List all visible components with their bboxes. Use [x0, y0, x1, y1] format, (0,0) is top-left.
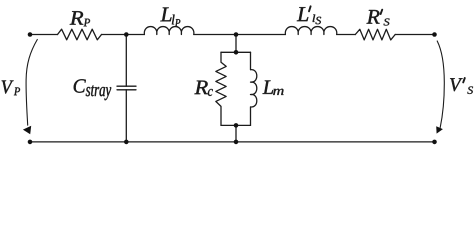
- wire LlP to node B: [194, 34, 286, 36]
- label LlS_S: [316, 17, 322, 24]
- label RS prime tick: [381, 10, 383, 14]
- label Lm_m: [273, 89, 283, 95]
- capacitor C1 Cstray top lead: [125, 35, 127, 87]
- label VS prime tick: [463, 78, 465, 82]
- inductor L3 Lm vertical: [251, 52, 257, 125]
- label RP_R: [70, 11, 84, 24]
- capacitor C1 Cstray plates: [117, 86, 136, 90]
- label RS_S: [384, 19, 390, 26]
- resistor R1 RP zigzag: [58, 29, 102, 40]
- node dot top parallel junction: [234, 32, 239, 37]
- label Lm_L: [263, 81, 274, 94]
- label LlP_l: [172, 15, 175, 25]
- wire stub box to bottom rail: [235, 125, 237, 141]
- resistor R2 RS zigzag: [355, 29, 395, 40]
- wire box bottom: [221, 124, 251, 126]
- node dot box bottom: [234, 123, 239, 128]
- label Rc_c: [208, 89, 213, 96]
- label VS_V: [450, 78, 463, 91]
- wire LlS to RS: [337, 34, 356, 36]
- label LlS prime tick: [309, 6, 311, 11]
- inductor L2 LlS: [285, 27, 336, 35]
- wire RS to right terminal: [395, 34, 434, 36]
- arrow VP arc: [26, 40, 37, 126]
- node dot top Cstray junction: [124, 32, 129, 37]
- arrowhead VS: [436, 126, 443, 133]
- label VP_P: [14, 88, 20, 96]
- wire stub node B to parallel box: [235, 35, 237, 53]
- label RS_R: [367, 10, 380, 24]
- resistor R3 Rc vertical: [216, 52, 226, 125]
- label Rc_R: [194, 81, 208, 95]
- node dot top-left terminal: [28, 32, 33, 37]
- arrow VS arc: [437, 41, 444, 128]
- label LlP_P: [175, 19, 180, 26]
- node dot bottom-right terminal: [432, 140, 437, 145]
- label C_C: [74, 79, 86, 92]
- node dot bottom Cstray junction: [124, 140, 129, 145]
- wire RP to node A: [102, 34, 145, 36]
- label LlS_L: [297, 7, 309, 21]
- label VS_S: [467, 87, 473, 94]
- capacitor C1 Cstray bottom lead: [125, 90, 127, 142]
- label RP_P: [84, 19, 90, 27]
- label LlS_l: [313, 15, 316, 22]
- node dot top-right terminal: [432, 32, 437, 37]
- wire box top: [221, 51, 251, 53]
- wire top rail left: [30, 34, 58, 36]
- node dot bottom-left terminal: [28, 140, 33, 145]
- arrowhead VP: [23, 126, 31, 134]
- inductor L1 LlP: [144, 27, 194, 35]
- node dot bottom parallel junction: [234, 140, 239, 145]
- node dot box top: [234, 50, 239, 55]
- label LlP_L: [160, 8, 171, 22]
- label C_stray: [86, 85, 111, 100]
- wire bottom rail: [30, 141, 435, 143]
- label VP_V: [2, 81, 14, 94]
